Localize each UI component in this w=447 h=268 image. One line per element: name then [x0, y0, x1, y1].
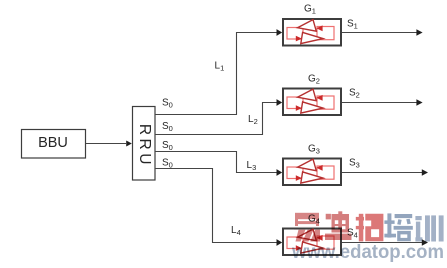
- watermark chinese character pei (blue): [384, 213, 412, 241]
- wire RRU port3 to G3: [155, 152, 282, 176]
- wire G2 output: [342, 99, 423, 105]
- wire BBU to RRU: [86, 141, 132, 147]
- label S0 port4: [162, 158, 173, 170]
- wire G1 output: [342, 29, 423, 35]
- label L2: [248, 114, 258, 126]
- label G2: [308, 74, 320, 86]
- svg-text:www.edatop.com: www.edatop.com: [291, 241, 444, 263]
- label S0 port1: [162, 98, 173, 110]
- watermark www.edatop.com: [291, 241, 444, 263]
- watermark chinese character di (red): [325, 211, 352, 240]
- wire G3 output: [342, 169, 428, 175]
- label S1: [347, 19, 358, 31]
- watermark chinese character xun (blue): [415, 215, 443, 241]
- svg-text:L1: L1: [215, 61, 225, 73]
- wire G4 output: [342, 239, 428, 245]
- svg-text:L3: L3: [247, 160, 257, 172]
- label S3: [349, 158, 360, 170]
- wire RRU port2 to G2: [155, 99, 282, 134]
- svg-text:G2: G2: [308, 74, 320, 86]
- svg-text:G3: G3: [308, 144, 320, 156]
- label S4: [347, 228, 358, 240]
- svg-text:S0: S0: [162, 158, 173, 170]
- svg-text:S2: S2: [349, 88, 360, 100]
- svg-text:RRU: RRU: [136, 124, 153, 168]
- label S0 port3: [162, 140, 173, 152]
- svg-text:L2: L2: [248, 114, 258, 126]
- label S0 port2: [162, 121, 173, 133]
- svg-text:S0: S0: [162, 140, 173, 152]
- label S2: [349, 88, 360, 100]
- svg-text:L4: L4: [231, 225, 241, 237]
- label L4: [231, 225, 241, 237]
- svg-text:S0: S0: [162, 121, 173, 133]
- block RRU: [133, 107, 156, 181]
- svg-text:S3: S3: [349, 158, 360, 170]
- svg-text:S0: S0: [162, 98, 173, 110]
- label L1: [215, 61, 225, 73]
- watermark chinese character yi (red): [294, 213, 320, 242]
- wire RRU port1 to G1: [155, 29, 282, 114]
- amplifier G2: [283, 89, 341, 116]
- amplifier G1: [283, 19, 341, 46]
- wire RRU port4 to G4: [155, 169, 282, 246]
- label G3: [308, 144, 320, 156]
- block BBU: [22, 130, 86, 159]
- svg-text:G1: G1: [304, 4, 316, 16]
- svg-text:BBU: BBU: [38, 135, 68, 151]
- label G4: [308, 213, 320, 225]
- label L3: [247, 160, 257, 172]
- watermark chinese character tuo (red): [356, 214, 384, 242]
- amplifier G4: [283, 229, 341, 256]
- label G1: [304, 4, 316, 16]
- svg-text:S1: S1: [347, 19, 358, 31]
- amplifier G3: [283, 159, 341, 186]
